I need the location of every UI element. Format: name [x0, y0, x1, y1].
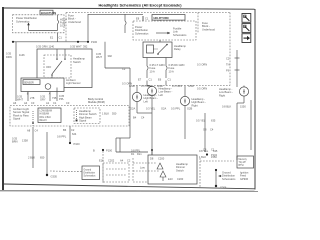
svg-text:0.5 YEL: 0.5 YEL	[196, 119, 206, 123]
svg-text:DRL 1 BLK: DRL 1 BLK	[40, 117, 52, 119]
svg-text:Distribution: Distribution	[84, 172, 96, 175]
svg-text:B4: B4	[133, 116, 137, 120]
svg-text:392: 392	[83, 44, 88, 48]
svg-text:0.8 PPL: 0.8 PPL	[131, 149, 141, 153]
svg-text:1550: 1550	[240, 105, 246, 109]
svg-text:0.35 WHT: 0.35 WHT	[70, 44, 82, 48]
svg-text:P102: P102	[211, 153, 218, 157]
svg-text:Low: Low	[140, 166, 145, 170]
svg-text:392: 392	[108, 54, 113, 58]
svg-text:B: B	[27, 92, 29, 96]
svg-text:OFF: OFF	[46, 65, 52, 69]
svg-text:A6: A6	[13, 101, 17, 105]
svg-text:G8: G8	[203, 128, 207, 132]
svg-text:GND: GND	[188, 84, 194, 88]
svg-text:G305: G305	[51, 175, 58, 179]
svg-text:Left: Left	[159, 93, 164, 97]
svg-text:Memory: Memory	[239, 158, 248, 161]
svg-text:0.8 BLK: 0.8 BLK	[222, 105, 231, 109]
svg-text:C1: C1	[53, 101, 57, 105]
svg-text:1140: 1140	[49, 44, 55, 48]
svg-text:Light Sensor: Light Sensor	[66, 81, 81, 85]
svg-text:A8: A8	[27, 129, 31, 133]
svg-text:0.3 ORN: 0.3 ORN	[122, 82, 132, 86]
svg-text:624: 624	[72, 132, 77, 136]
svg-text:Signal: Signal	[79, 119, 87, 123]
svg-text:Switch: Switch	[73, 60, 81, 64]
svg-text:278: 278	[30, 96, 35, 100]
svg-text:BULK/TURN: BULK/TURN	[41, 11, 56, 15]
svg-text:C2: C2	[71, 128, 75, 132]
svg-text:Schematics: Schematics	[222, 177, 236, 181]
svg-text:1146: 1146	[19, 53, 25, 57]
svg-text:BTSI: BTSI	[239, 165, 244, 167]
svg-text:0.3 YEL: 0.3 YEL	[146, 107, 156, 111]
svg-text:C1: C1	[59, 36, 63, 40]
svg-text:SENSOR: SENSOR	[24, 82, 34, 84]
svg-text:550: 550	[112, 112, 117, 116]
svg-text:B6: B6	[63, 128, 67, 132]
svg-text:G2A: G2A	[130, 107, 135, 111]
svg-text:650: 650	[40, 156, 45, 160]
svg-text:C202: C202	[108, 159, 115, 163]
svg-text:C4: C4	[210, 128, 214, 132]
svg-text:Right: Right	[219, 93, 225, 97]
svg-text:C2: C2	[122, 67, 126, 71]
svg-text:1358: 1358	[22, 139, 28, 143]
svg-text:A: A	[49, 92, 51, 96]
svg-text:Trip I/P: Trip I/P	[239, 161, 247, 164]
svg-text:C4: C4	[141, 116, 145, 120]
svg-text:E1: E1	[50, 36, 54, 40]
svg-text:1 BLK: 1 BLK	[102, 112, 109, 116]
svg-text:C3: C3	[31, 101, 35, 105]
svg-text:Right: Right	[192, 103, 198, 107]
svg-text:G306: G306	[220, 186, 227, 190]
svg-text:10 A: 10 A	[150, 69, 155, 73]
svg-text:735: 735	[52, 96, 57, 100]
svg-text:10 A: 10 A	[169, 69, 174, 73]
svg-text:0.35 ORN: 0.35 ORN	[36, 44, 48, 48]
svg-text:P100: P100	[106, 149, 113, 153]
svg-text:LOW BEAM: LOW BEAM	[40, 110, 52, 113]
svg-text:G2B: G2B	[187, 107, 192, 111]
svg-text:Schematics: Schematics	[84, 175, 97, 178]
svg-text:RELAY: RELAY	[40, 119, 48, 122]
svg-text:BRN: BRN	[12, 140, 18, 144]
svg-text:DRN: DRN	[6, 55, 12, 59]
svg-text:10 A: 10 A	[60, 24, 65, 28]
svg-text:Module (BCM): Module (BCM)	[88, 100, 105, 104]
svg-text:C200: C200	[158, 157, 165, 161]
svg-text:D8: D8	[150, 157, 154, 161]
svg-text:E7: E7	[138, 78, 142, 82]
svg-text:HDLP/TURN: HDLP/TURN	[154, 16, 169, 20]
svg-text:Dim: Dim	[137, 152, 142, 156]
svg-text:WHT: WHT	[17, 98, 23, 102]
svg-text:C1: C1	[145, 17, 149, 21]
svg-text:Left: Left	[144, 99, 149, 103]
svg-text:2 BLK: 2 BLK	[28, 156, 35, 160]
svg-text:C3: C3	[66, 101, 70, 105]
svg-text:HI BEAM: HI BEAM	[40, 113, 50, 116]
svg-text:Underhood: Underhood	[68, 20, 81, 24]
svg-text:TN: TN	[226, 63, 230, 67]
svg-text:D1: D1	[131, 152, 135, 156]
svg-text:Schematics: Schematics	[135, 31, 149, 35]
svg-text:Switch: Switch	[176, 168, 184, 172]
svg-text:A4: A4	[24, 101, 28, 105]
svg-text:G2A: G2A	[161, 107, 166, 111]
svg-text:C2: C2	[226, 57, 230, 61]
svg-text:E6: E6	[158, 78, 162, 82]
svg-text:P100: P100	[74, 142, 81, 146]
svg-text:C2: C2	[127, 159, 131, 163]
svg-text:C200: C200	[177, 177, 184, 181]
svg-text:0.8 PPL: 0.8 PPL	[57, 135, 67, 139]
svg-text:Relay: Relay	[174, 47, 181, 51]
svg-text:Ground: Ground	[84, 169, 92, 172]
svg-text:C1: C1	[168, 78, 172, 82]
svg-text:PPL: PPL	[59, 97, 64, 101]
svg-text:E13: E13	[168, 177, 173, 181]
svg-text:E8: E8	[136, 17, 140, 21]
svg-text:0.5 ORN: 0.5 ORN	[197, 87, 207, 91]
svg-text:Underhood: Underhood	[202, 27, 215, 31]
svg-text:Headlights Schematics (All Exc: Headlights Schematics (All Except Escala…	[98, 2, 182, 7]
svg-text:C4: C4	[35, 129, 39, 133]
svg-text:B: B	[93, 149, 95, 153]
svg-text:C1: C1	[149, 78, 153, 82]
svg-text:A1: A1	[46, 101, 50, 105]
svg-text:C1: C1	[211, 148, 215, 152]
svg-text:0.3 ORN: 0.3 ORN	[197, 63, 207, 67]
svg-text:0.5 PPL: 0.5 PPL	[171, 107, 181, 111]
svg-text:635: 635	[211, 119, 216, 123]
svg-text:GP906: GP906	[240, 177, 249, 181]
svg-text:0.3 ORN: 0.3 ORN	[172, 84, 182, 88]
svg-text:Schematics: Schematics	[173, 33, 187, 37]
svg-text:E16: E16	[99, 159, 104, 163]
svg-text:A4: A4	[120, 159, 124, 163]
svg-text:Schematics: Schematics	[16, 19, 30, 23]
svg-text:WHT: WHT	[96, 55, 102, 59]
svg-text:Signal: Signal	[13, 117, 21, 121]
svg-text:GRY: GRY	[40, 98, 46, 102]
svg-text:P100: P100	[91, 40, 98, 44]
